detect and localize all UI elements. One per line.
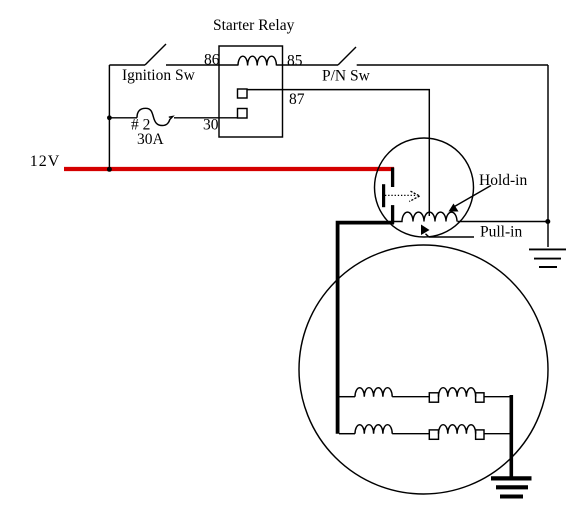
svg-text:Pull-in: Pull-in xyxy=(480,224,522,241)
wire: 12V supply (red) xyxy=(64,167,394,171)
junction dot: left bus at fuse tap xyxy=(107,115,112,120)
wire: cable to field coil row 2 xyxy=(339,433,355,435)
solenoid moving contact (plunger disc) xyxy=(382,184,385,207)
relay contact square pin 30 xyxy=(238,109,248,119)
wire: row 1 to right return bus xyxy=(484,396,511,398)
svg-text:87: 87 xyxy=(289,91,305,108)
wire: relay coil pin 85 to P/N switch xyxy=(276,64,338,66)
brush contact square (row 2 left) xyxy=(429,430,438,439)
svg-text:30: 30 xyxy=(203,117,219,134)
hold-in arrowhead xyxy=(449,204,459,212)
switch: P/N Sw blade xyxy=(338,47,356,65)
field coil L1 (row 1 left) xyxy=(355,388,392,397)
junction dot: right bus at winding return xyxy=(545,219,550,224)
wire: left bus to fuse xyxy=(109,117,137,119)
brush contact square (row 1 right) xyxy=(476,393,484,402)
pull-in arrowhead xyxy=(421,225,430,236)
starter motor M1 circle xyxy=(299,245,548,494)
solenoid fixed contact (top) xyxy=(391,168,394,188)
armature coil L4 (row 2 right) xyxy=(439,425,476,434)
svg-text:Hold-in: Hold-in xyxy=(479,172,527,189)
brush contact square (row 1 left) xyxy=(429,393,438,402)
svg-text:85: 85 xyxy=(287,53,303,70)
thick motor return bus to ground xyxy=(509,395,513,478)
svg-text:12V: 12V xyxy=(30,153,61,170)
solenoid winding (hold-in / pull-in coil) xyxy=(394,212,457,221)
wire: cable to field coil row 1 xyxy=(339,396,355,398)
thick battery cable: solenoid contact to starter motor xyxy=(338,223,394,434)
wire: to ignition switch xyxy=(109,64,145,66)
ground (right, solenoid/relay) xyxy=(529,249,566,267)
relay K1 box xyxy=(219,46,283,137)
relay coil xyxy=(238,56,276,65)
svg-text:86: 86 xyxy=(204,52,220,69)
switch: Ignition Sw blade xyxy=(145,44,166,65)
hold-in pointer line xyxy=(455,186,492,207)
brush contact square (row 2 right) xyxy=(476,430,484,439)
junction dot: left bus on 12V wire xyxy=(107,167,112,172)
wire: left vertical bus from Ignition Sw down to 12V xyxy=(108,65,110,170)
wire: row 2 between coil and brush xyxy=(392,433,429,435)
wire: solenoid winding to right bus (ground) xyxy=(458,221,549,223)
solenoid S1 circle xyxy=(375,138,474,237)
field coil L3 (row 2 left) xyxy=(355,425,392,434)
fuse F2 symbol xyxy=(137,108,173,125)
wire: right vertical bus down to ground xyxy=(547,65,549,247)
wire: row 1 between coil and brush xyxy=(392,396,429,398)
ground (bottom, motor) xyxy=(491,478,532,496)
pull-in pointer line xyxy=(426,234,475,237)
svg-text:Starter Relay: Starter Relay xyxy=(213,17,295,34)
svg-text:30A: 30A xyxy=(137,131,165,148)
svg-text:Ignition Sw: Ignition Sw xyxy=(122,67,196,84)
wire: row 2 to right return bus xyxy=(484,433,511,435)
wire: ignition switch to relay pin 86 / coil xyxy=(166,64,238,66)
armature coil L2 (row 1 right) xyxy=(439,388,476,397)
wire: P/N switch to right bus xyxy=(357,64,548,66)
solenoid fixed contact (bottom) xyxy=(391,205,394,224)
wire: fuse to relay pin 30 xyxy=(174,117,238,119)
wire: pin 87 to solenoid pull-in winding xyxy=(247,90,429,216)
plunger travel dotted arrow xyxy=(385,194,415,196)
svg-text:P/N Sw: P/N Sw xyxy=(322,68,371,85)
relay contact square pin 87 xyxy=(238,89,248,98)
